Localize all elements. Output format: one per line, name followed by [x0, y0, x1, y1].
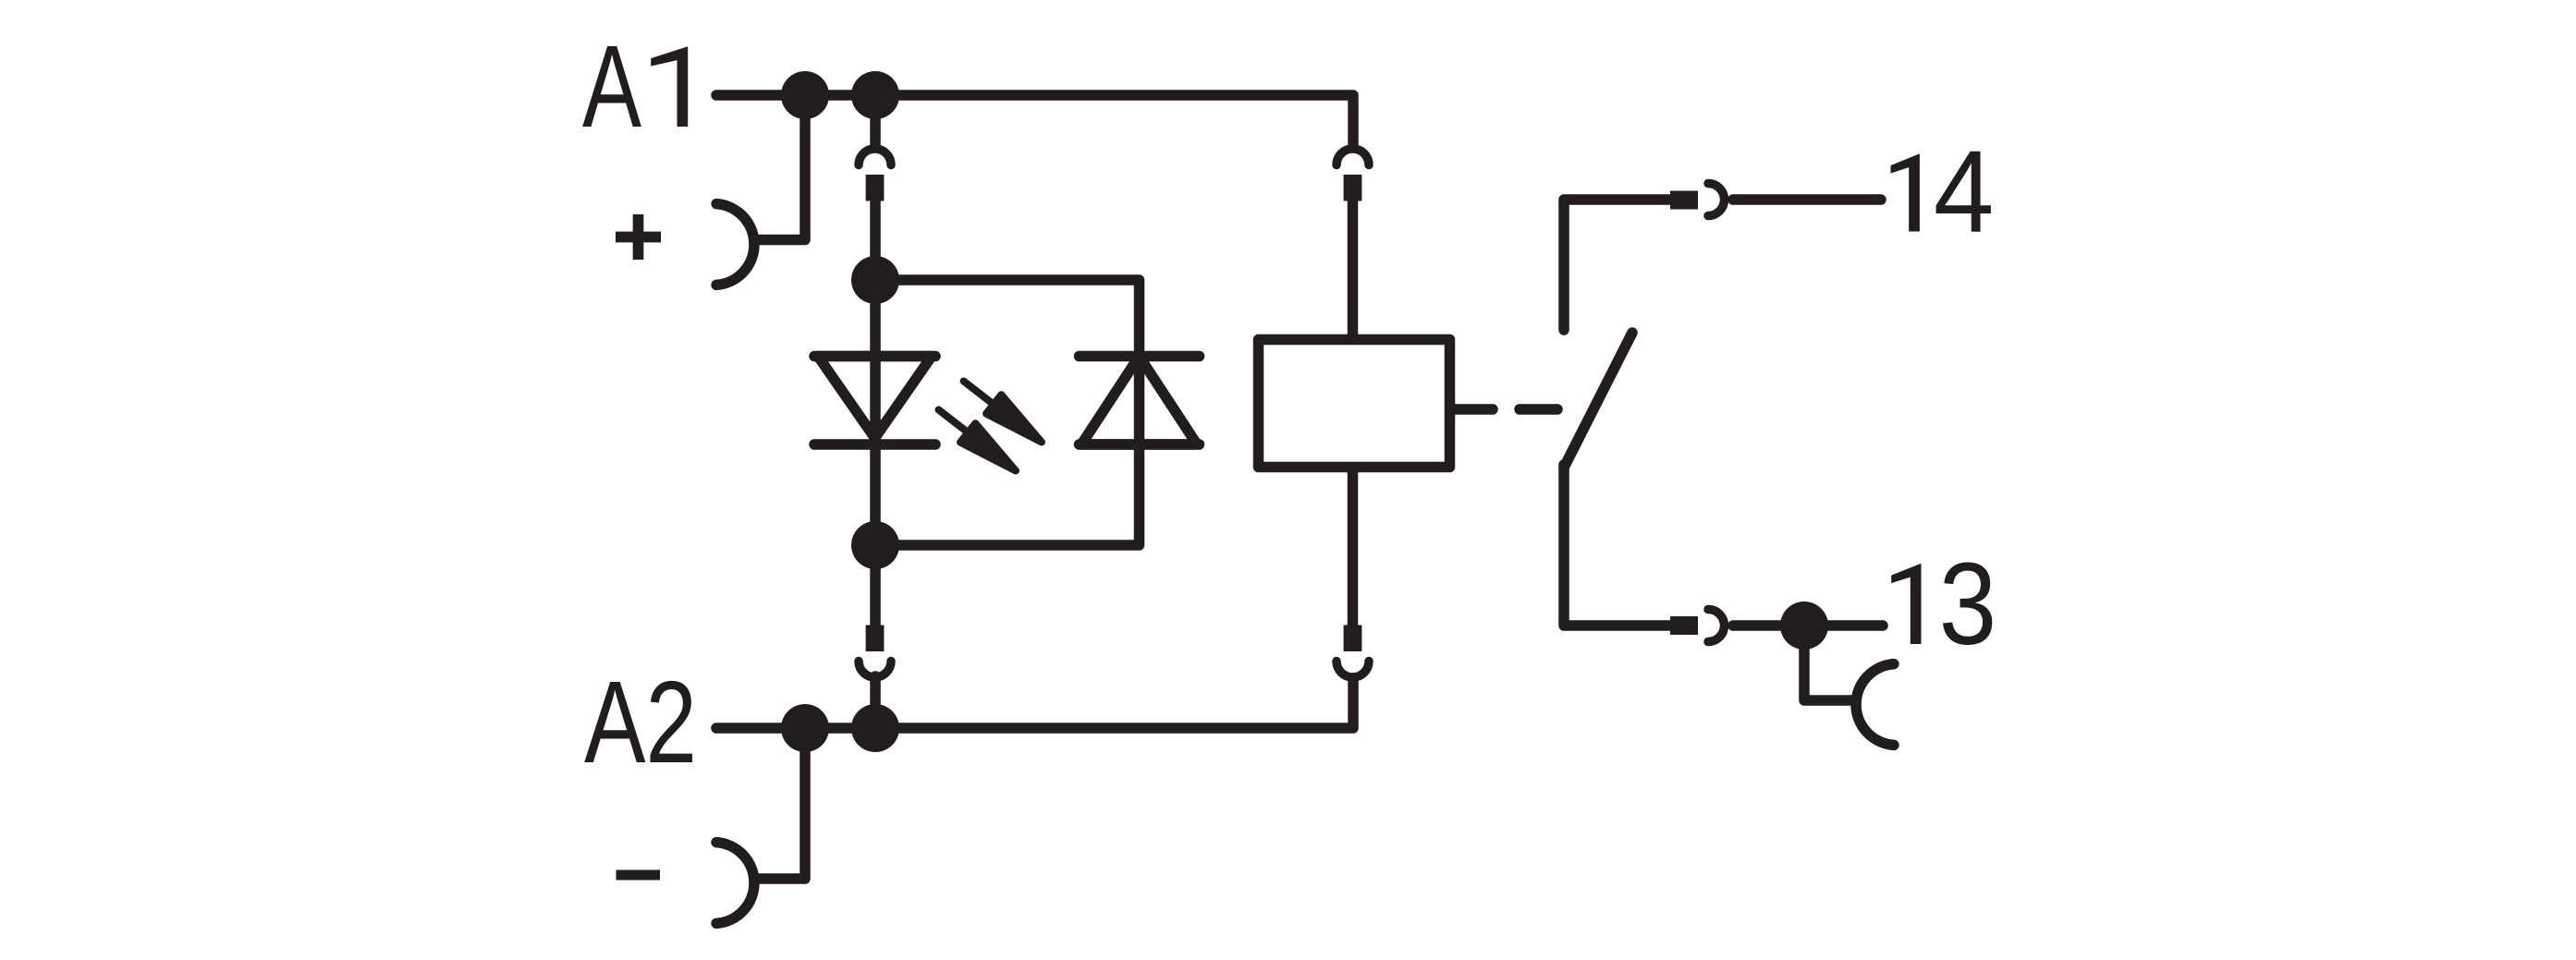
- wire stub: node J4 down into clamp CC2: [870, 545, 881, 625]
- junction node J3 (LED / diode loop top): [851, 256, 899, 304]
- relay coil K1 (rectangle): [1259, 340, 1450, 468]
- wire +branch: from node J1 down and left to clamp: [756, 95, 805, 240]
- NO contact blade S1: [1564, 333, 1632, 468]
- diode V1 anode bar (bottom): [1080, 439, 1200, 450]
- wire -branch: from node J6 down and left to clamp: [756, 728, 805, 879]
- clamp CC6 arc (terminal 13 cage clamp): [1708, 610, 1725, 642]
- LED D1 emission arrow 1 head: [986, 395, 1042, 442]
- clamp contact + (spring terminal arc): [716, 204, 754, 286]
- clamp CC1 contact block: [866, 175, 885, 201]
- svg-text:3: 3: [1939, 539, 1997, 669]
- clamp contact - (spring terminal arc): [716, 843, 754, 924]
- wire stub: clamp CC2 to node J5: [870, 676, 881, 728]
- terminal label 13 digit 1: [1891, 564, 1921, 644]
- wire loop: node J3 right, down through diode V1, back to node J4: [875, 280, 1140, 545]
- clamp contact at 13 (spring terminal arc, opening right): [1856, 664, 1894, 746]
- junction node J4 (LED / diode loop bottom): [851, 521, 899, 569]
- svg-text:A2: A2: [584, 657, 697, 787]
- LED D1 emission arrow 2 shaft: [939, 410, 972, 436]
- terminal label 14 digit 1: [1891, 153, 1920, 231]
- clamp CC3 arc (cage clamp on coil top branch): [1337, 149, 1369, 165]
- clamp CC2 contact block: [866, 626, 885, 652]
- wire: node J7 right to label 13: [1804, 620, 1883, 631]
- LED D1 triangle (pointing down): [818, 357, 932, 439]
- relay coil K1 actuating pin (right side): [1455, 404, 1493, 415]
- clamp CC4 contact block: [1344, 626, 1362, 652]
- wire stub: node J2 down into clamp CC1: [870, 95, 881, 146]
- clamp CC3 contact block: [1344, 175, 1362, 201]
- LED D1 emission arrow 2 head: [960, 423, 1016, 470]
- junction node J5 (A2 / LED branch): [851, 704, 899, 752]
- clamp CC5 arc (terminal 14 cage clamp): [1708, 184, 1725, 216]
- wire: clamp CC3 down to relay coil K1: [1348, 200, 1359, 339]
- svg-text:A: A: [582, 21, 641, 152]
- wire LED branch: node J3 down through LED to node J4: [870, 280, 881, 545]
- junction node J1 (A1 / + branch): [781, 71, 829, 119]
- clamp CC1 arc (cage clamp below A1 rail): [859, 149, 891, 165]
- wire: node J7 down and right to spring contact: [1804, 626, 1851, 700]
- LED D1 emission arrow 1 shaft: [964, 382, 996, 407]
- wire contact upper: corner to 14 clamp: [1564, 200, 1671, 330]
- clamp CC4 arc (cage clamp on coil bottom branch): [1337, 662, 1369, 678]
- wire contact lower: blade to 13 clamp: [1564, 465, 1671, 626]
- diode V1 triangle (pointing up): [1081, 357, 1197, 445]
- LED D1 anode bar (top): [814, 351, 935, 362]
- wire: clamp CC1 to node J3: [870, 200, 881, 280]
- terminal label A1 digit 1: [651, 46, 688, 127]
- wire A1 rail: from terminal A1 right to relay-coil branch corner: [716, 95, 1353, 146]
- wire: clamp CC6 to node J7: [1733, 620, 1804, 631]
- wire: clamp CC5 to label 14: [1733, 194, 1881, 205]
- polarity label + (plus sign): [616, 214, 661, 260]
- svg-text:4: 4: [1934, 127, 1995, 257]
- junction node J2 (A1 / LED branch): [851, 71, 899, 119]
- wire: relay coil K1 bottom to clamp CC4: [1348, 468, 1359, 626]
- diode V1 cathode bar (top): [1080, 351, 1200, 362]
- junction node J7 (13 branch): [1780, 602, 1828, 650]
- wire A2 rail: from terminal A2 right to relay-coil bottom corner: [716, 678, 1353, 728]
- mechanical link dash to contact: [1520, 404, 1557, 415]
- junction node J6 (A2 / - branch): [781, 704, 829, 752]
- clamp CC5 contact block: [1670, 191, 1698, 210]
- polarity label - (minus sign): [0, 0, 660, 875]
- clamp CC6 contact block: [1670, 616, 1698, 635]
- LED D1 cathode bar (bottom): [814, 439, 935, 450]
- clamp CC2 arc (cage clamp above A2 rail): [859, 662, 891, 678]
